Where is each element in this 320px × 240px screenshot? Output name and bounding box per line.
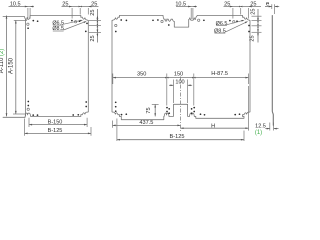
svg-text:A-150: A-150	[8, 57, 14, 74]
svg-text:150: 150	[174, 72, 183, 78]
svg-text:25: 25	[90, 35, 96, 41]
svg-text:100: 100	[175, 79, 184, 85]
svg-text:25: 25	[250, 35, 256, 41]
svg-text:A-110 (2): A-110 (2)	[0, 49, 5, 74]
svg-text:(1): (1)	[255, 130, 262, 136]
svg-text:H: H	[211, 124, 215, 130]
svg-text:75: 75	[146, 107, 152, 113]
svg-text:12.5: 12.5	[255, 123, 266, 129]
svg-text:H-87.5: H-87.5	[211, 71, 228, 77]
svg-text:350: 350	[137, 72, 146, 78]
svg-text:25: 25	[250, 8, 256, 14]
svg-text:25: 25	[90, 9, 96, 15]
